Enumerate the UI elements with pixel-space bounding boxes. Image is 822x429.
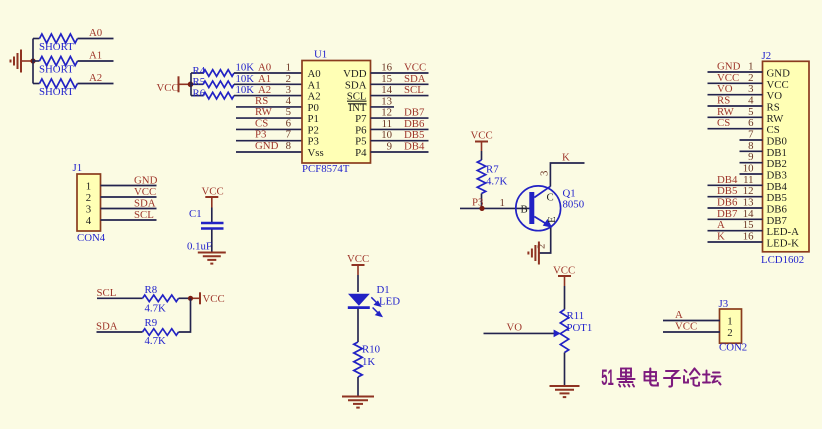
wire U1 pin 14 <box>371 95 429 97</box>
svg-text:DB1: DB1 <box>767 147 787 159</box>
svg-text:P6: P6 <box>355 124 367 136</box>
ground (R10) <box>342 397 374 408</box>
wire J2 pin 16 <box>708 241 763 243</box>
svg-text:A2: A2 <box>308 91 321 103</box>
wire stub to resistor R6 <box>191 95 203 97</box>
svg-text:VO: VO <box>507 322 523 334</box>
svg-text:R7: R7 <box>486 164 499 176</box>
potentiometer wiper arrow <box>554 330 561 338</box>
svg-text:RW: RW <box>255 106 273 118</box>
svg-text:GND: GND <box>255 140 279 152</box>
svg-text:SDA: SDA <box>96 320 118 332</box>
svg-text:SCL: SCL <box>404 84 424 96</box>
wire R7 to base node <box>481 194 483 209</box>
svg-text:A1: A1 <box>308 79 321 91</box>
power VCC (R8/R9) <box>199 292 201 304</box>
ground GND (SHORT bank) <box>11 50 22 73</box>
wire R6 to U1 pin 3 <box>234 95 302 97</box>
resistor R10 1K <box>354 342 362 377</box>
svg-text:A1: A1 <box>89 50 102 62</box>
svg-text:SHORT: SHORT <box>39 86 74 98</box>
svg-text:DB4: DB4 <box>767 181 788 193</box>
wire J2 pin 14 <box>708 218 763 220</box>
svg-text:P0: P0 <box>308 102 319 114</box>
svg-text:P5: P5 <box>355 136 366 148</box>
svg-text:DB7: DB7 <box>717 208 738 220</box>
svg-text:DB7: DB7 <box>767 215 788 227</box>
ground (Q1 emitter) <box>528 242 539 265</box>
svg-text:VCC: VCC <box>203 293 225 305</box>
svg-text:4: 4 <box>748 94 754 106</box>
svg-text:RW: RW <box>717 106 735 118</box>
wire U1 pin 9 <box>371 151 429 153</box>
wire VO to wiper <box>484 332 556 334</box>
connector J1 body (CON4) <box>77 174 101 231</box>
svg-text:DB7: DB7 <box>404 107 425 119</box>
svg-text:6: 6 <box>286 117 292 129</box>
svg-text:3: 3 <box>86 204 91 216</box>
logo text 51hei forum <box>601 365 614 390</box>
wire VCC to C1 <box>211 197 213 208</box>
svg-text:P1: P1 <box>308 113 319 125</box>
svg-text:5: 5 <box>748 106 753 118</box>
svg-text:R9: R9 <box>145 317 158 329</box>
resistor R5 10K <box>203 81 234 88</box>
svg-text:LCD1602: LCD1602 <box>761 254 804 266</box>
svg-text:R11: R11 <box>567 310 585 322</box>
svg-text:DB6: DB6 <box>767 203 788 215</box>
svg-text:RS: RS <box>767 101 780 113</box>
svg-text:R10: R10 <box>362 344 380 356</box>
svg-text:2: 2 <box>86 192 91 204</box>
wire U1 pin 15 <box>371 83 429 85</box>
svg-text:8050: 8050 <box>563 199 585 211</box>
wire J2 pin 15 <box>708 230 763 232</box>
svg-text:Vss: Vss <box>308 147 324 159</box>
ground (R11) <box>550 386 580 397</box>
svg-text:RS: RS <box>717 94 730 106</box>
wire VCC to R11 <box>564 276 566 286</box>
svg-text:DB6: DB6 <box>404 118 425 130</box>
svg-text:1: 1 <box>500 197 505 209</box>
wire J2 pin 1 <box>708 71 763 73</box>
svg-text:C1: C1 <box>189 208 202 220</box>
svg-text:VCC: VCC <box>471 130 493 142</box>
svg-text:10K: 10K <box>236 84 255 96</box>
wire J2 pin 4 <box>708 105 763 107</box>
svg-text:GND: GND <box>767 68 791 80</box>
svg-text:B: B <box>521 204 528 216</box>
svg-text:0.1uF: 0.1uF <box>187 241 212 253</box>
svg-text:A: A <box>717 219 725 231</box>
svg-text:A: A <box>675 309 683 321</box>
svg-text:A0: A0 <box>258 62 271 74</box>
svg-text:VCC: VCC <box>134 186 156 198</box>
resistor R7 4.7K <box>477 160 485 194</box>
svg-text:R5: R5 <box>193 76 206 88</box>
svg-text:16: 16 <box>381 62 392 74</box>
svg-text:R6: R6 <box>193 87 206 99</box>
svg-text:13: 13 <box>381 95 392 107</box>
svg-text:A1: A1 <box>258 73 271 85</box>
connector J3 body (CON2) <box>720 309 742 343</box>
junction node (SHORT bank) <box>30 58 35 63</box>
resistor SHORT (row A1) <box>40 57 78 66</box>
wire U1 pin 16 <box>371 72 429 74</box>
svg-text:CS: CS <box>717 117 730 129</box>
wire net GND to U1 pin 8 <box>236 151 302 153</box>
svg-text:DB3: DB3 <box>767 169 787 181</box>
svg-text:GND: GND <box>717 61 741 73</box>
svg-text:3: 3 <box>539 171 551 176</box>
wire J2 pin 6 <box>708 128 763 130</box>
svg-text:VCC: VCC <box>202 186 224 198</box>
svg-text:R8: R8 <box>145 284 158 296</box>
wire U1 pin 10 <box>371 140 429 142</box>
junction node (Q1 base) <box>479 206 484 211</box>
svg-text:VCC: VCC <box>347 253 369 265</box>
transistor Q1 8050 <box>516 186 561 231</box>
connector J2 body (LCD1602) <box>763 61 810 252</box>
wire SDA to R9 <box>97 331 143 333</box>
wire J2 pin 13 <box>708 207 763 209</box>
wire J2 pin 8 <box>740 150 763 152</box>
svg-text:U1: U1 <box>314 49 327 61</box>
svg-text:51: 51 <box>601 365 614 390</box>
wire stub to resistor R4 <box>191 72 203 74</box>
svg-text:P4: P4 <box>355 147 367 159</box>
svg-text:VO: VO <box>767 90 783 102</box>
wire VCC to R7 <box>481 142 483 152</box>
junction node (R8/R9 VCC) <box>188 296 193 301</box>
op-amp U1 body (PCF8574T) <box>302 61 371 164</box>
svg-text:16: 16 <box>743 230 754 242</box>
wire net RW to U1 pin 5 <box>236 117 302 119</box>
wire R8 to VCC junction <box>179 297 191 299</box>
svg-text:P3: P3 <box>255 129 266 141</box>
svg-text:10: 10 <box>381 129 392 141</box>
svg-text:14: 14 <box>743 208 754 220</box>
svg-text:SDA: SDA <box>404 73 426 85</box>
svg-text:15: 15 <box>381 73 392 85</box>
svg-text:DB4: DB4 <box>717 174 738 186</box>
wire stub to resistor SHORT1 <box>33 38 40 40</box>
wire VCC to D1 <box>357 265 359 275</box>
svg-text:A0: A0 <box>89 27 102 39</box>
wire resistor to net A2 <box>78 83 114 85</box>
wire stub to resistor SHORT3 <box>33 83 40 85</box>
wire U1 pin 13 <box>371 106 395 108</box>
wire collector to K <box>550 163 584 187</box>
svg-text:P7: P7 <box>355 113 367 125</box>
wire D1 to R10 <box>357 309 359 343</box>
svg-text:A2: A2 <box>89 72 102 84</box>
svg-text:4.7K: 4.7K <box>145 335 166 347</box>
svg-text:K: K <box>717 230 725 242</box>
svg-text:10K: 10K <box>236 62 255 74</box>
wire J2 pin 2 <box>708 82 763 84</box>
svg-text:R4: R4 <box>193 65 206 77</box>
svg-text:SHORT: SHORT <box>39 41 74 53</box>
svg-text:D1: D1 <box>377 284 390 296</box>
capacitor C1 plates <box>201 222 224 225</box>
svg-text:9: 9 <box>387 141 392 153</box>
wire J2 pin 12 <box>708 196 763 198</box>
svg-text:15: 15 <box>743 219 754 231</box>
wire resistor to net A1 <box>78 60 114 62</box>
svg-text:12: 12 <box>743 185 754 197</box>
wire J1 pin 3 <box>101 208 157 210</box>
svg-text:CS: CS <box>767 124 780 136</box>
wire vertical bus (SHORT bank) <box>32 39 34 84</box>
wire J2 pin 9 <box>740 162 763 164</box>
wire J3 pin 2 <box>663 331 720 333</box>
resistor R4 10K <box>203 70 234 77</box>
svg-text:2: 2 <box>748 72 753 84</box>
svg-text:GND: GND <box>134 175 158 187</box>
wire J3 pin 1 <box>663 320 720 322</box>
wire J1 pin 1 <box>101 185 157 187</box>
svg-text:CON2: CON2 <box>719 342 747 354</box>
svg-text:2: 2 <box>286 73 291 85</box>
svg-text:LED: LED <box>379 296 400 308</box>
resistor R8 4.7K <box>143 295 179 302</box>
svg-text:SDA: SDA <box>134 198 156 210</box>
svg-text:CON4: CON4 <box>77 232 106 244</box>
wire R11 to ground <box>564 353 566 387</box>
svg-text:SCL: SCL <box>97 287 117 299</box>
svg-text:10: 10 <box>743 162 754 174</box>
wire J2 pin 7 <box>740 139 763 141</box>
svg-text:K: K <box>562 151 570 163</box>
resistor R11 POT1 <box>560 310 568 353</box>
svg-text:DB5: DB5 <box>717 185 737 197</box>
svg-text:RS: RS <box>255 95 268 107</box>
svg-text:VCC: VCC <box>157 82 179 94</box>
svg-text:7: 7 <box>286 129 292 141</box>
svg-text:DB4: DB4 <box>404 141 425 153</box>
wire R5 to U1 pin 2 <box>234 83 302 85</box>
wire J2 pin 10 <box>740 173 763 175</box>
wire R4 to U1 pin 1 <box>234 72 302 74</box>
svg-text:J1: J1 <box>73 162 83 174</box>
svg-text:VDD: VDD <box>343 68 367 80</box>
wire stub to resistor SHORT2 <box>33 60 40 62</box>
svg-text:8: 8 <box>286 140 291 152</box>
svg-text:LED-A: LED-A <box>767 226 800 238</box>
svg-text:4.7K: 4.7K <box>486 176 507 188</box>
wire net P3 to U1 pin 7 <box>236 140 302 142</box>
svg-text:LED-K: LED-K <box>767 237 800 249</box>
svg-text:4.7K: 4.7K <box>145 302 166 314</box>
wire U1 pin 11 <box>371 128 429 130</box>
svg-text:13: 13 <box>743 196 754 208</box>
wire R10 to ground <box>357 377 359 397</box>
svg-text:VCC: VCC <box>404 62 426 74</box>
wire J2 pin 5 <box>708 116 763 118</box>
svg-text:VCC: VCC <box>767 79 789 91</box>
svg-text:1: 1 <box>727 316 732 328</box>
LED D1 <box>348 294 370 306</box>
resistor R9 4.7K <box>143 329 179 336</box>
svg-text:4: 4 <box>86 215 92 227</box>
svg-text:C: C <box>547 192 554 204</box>
svg-text:14: 14 <box>381 84 392 96</box>
svg-text:1K: 1K <box>362 356 375 368</box>
junction node (VCC bus U1) <box>188 82 194 88</box>
svg-text:4: 4 <box>286 95 292 107</box>
svg-text:6: 6 <box>748 117 754 129</box>
svg-text:DB6: DB6 <box>717 196 738 208</box>
svg-text:11: 11 <box>743 174 753 186</box>
wire J2 pin 3 <box>708 94 763 96</box>
svg-text:12: 12 <box>381 107 392 119</box>
wire emitter down <box>539 228 551 253</box>
svg-text:VCC: VCC <box>717 72 739 84</box>
ground (C1) <box>198 253 226 264</box>
svg-text:RW: RW <box>767 113 785 125</box>
wire R9 up to junction <box>179 298 191 332</box>
svg-text:SCL: SCL <box>134 209 154 221</box>
wire net RS to U1 pin 4 <box>236 106 302 108</box>
svg-text:2: 2 <box>727 327 732 339</box>
svg-text:PCF8574T: PCF8574T <box>302 163 350 175</box>
svg-text:SHORT: SHORT <box>39 64 74 76</box>
wire vertical bus (R4-R6) <box>190 73 192 96</box>
svg-text:POT1: POT1 <box>567 322 593 334</box>
resistor SHORT (row A2) <box>40 79 78 88</box>
svg-text:9: 9 <box>748 151 753 163</box>
svg-text:DB0: DB0 <box>767 135 787 147</box>
wire resistor to net A0 <box>78 38 114 40</box>
wire SCL to R8 <box>97 297 143 299</box>
svg-text:VCC: VCC <box>675 321 697 333</box>
wire net CS to U1 pin 6 <box>236 128 302 130</box>
svg-text:1: 1 <box>86 181 91 193</box>
svg-text:11: 11 <box>382 118 392 130</box>
svg-text:SDA: SDA <box>345 79 367 91</box>
svg-text:DB5: DB5 <box>767 192 787 204</box>
svg-text:A0: A0 <box>308 68 321 80</box>
wire J1 pin 4 <box>101 219 157 221</box>
svg-text:VO: VO <box>717 83 733 95</box>
wire J2 pin 11 <box>708 184 763 186</box>
svg-text:3: 3 <box>748 83 753 95</box>
svg-text:1: 1 <box>286 62 291 74</box>
resistor R6 10K <box>203 92 234 99</box>
svg-text:DB5: DB5 <box>404 129 424 141</box>
wire VCC to bus <box>179 83 191 85</box>
wire stub to resistor R5 <box>191 83 203 85</box>
svg-text:7: 7 <box>748 128 754 140</box>
wire P3 to base <box>460 207 530 209</box>
resistor SHORT (row A0) <box>40 34 78 43</box>
wire J1 pin 2 <box>101 196 157 198</box>
svg-text:E: E <box>546 216 558 223</box>
svg-text:8: 8 <box>748 140 753 152</box>
svg-text:1: 1 <box>748 61 753 73</box>
svg-text:10K: 10K <box>236 73 255 85</box>
svg-text:J2: J2 <box>762 50 772 62</box>
svg-text:CS: CS <box>255 117 268 129</box>
svg-text:P3: P3 <box>308 136 319 148</box>
svg-text:5: 5 <box>286 106 291 118</box>
wire C1 to ground <box>211 230 213 253</box>
wire ground to junction <box>21 60 33 62</box>
svg-text:P2: P2 <box>308 124 319 136</box>
svg-text:2: 2 <box>536 244 548 249</box>
svg-text:VCC: VCC <box>553 265 575 277</box>
svg-text:DB2: DB2 <box>767 158 787 170</box>
wire U1 pin 12 <box>371 117 429 119</box>
